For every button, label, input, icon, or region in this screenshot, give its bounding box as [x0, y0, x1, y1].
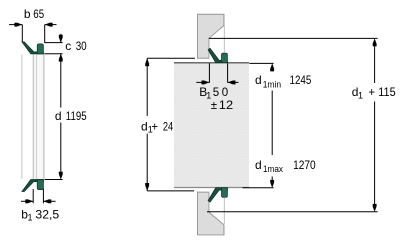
svg-text:d: d: [55, 109, 62, 123]
dimension d1min: arrow pointing up: [270, 63, 274, 69]
dimension d1+115: top arrow pointing up: [373, 38, 377, 44]
dimension d1+115: vertical line: [374, 44, 376, 83]
dimension d1+24: bottom arrow pointing down: [145, 185, 149, 191]
shaft bottom edge: [174, 187, 249, 189]
mounted V-ring bottom: body: [222, 188, 228, 198]
dimension d: bottom arrow pointing down: [59, 174, 63, 180]
dimension b1: right arrow: [43, 200, 55, 202]
dimension d1+115: top extension line: [209, 37, 378, 39]
shaft block: [174, 63, 249, 188]
svg-text:c: c: [65, 39, 71, 53]
svg-text:+: +: [151, 121, 158, 133]
dimension b: left extension line: [21, 25, 23, 42]
svg-text:0: 0: [222, 87, 228, 99]
dimension d1+24: top arrow pointing up: [145, 58, 149, 64]
dimension d1max: datum line: [243, 187, 274, 189]
mounted V-ring top: lip and base: [208, 48, 227, 62]
V-ring section lower: lip and base: [22, 180, 44, 192]
dimension c: lower datum line: [44, 53, 62, 55]
dimension d1min: datum line: [249, 62, 273, 64]
svg-text:30: 30: [76, 41, 87, 53]
svg-text:1: 1: [28, 213, 33, 223]
dimension c: upper arrow pointing down: [60, 34, 62, 43]
dimension B1: right arrow: [228, 81, 239, 83]
svg-text:5: 5: [213, 87, 219, 99]
dimension b1: left extension line: [32, 189, 34, 203]
dimension d: vertical line: [60, 63, 62, 108]
bore projection line bottom: [223, 198, 225, 224]
dimension b: line tails: [9, 24, 22, 26]
projection line at body right edge: [43, 55, 45, 180]
dimension d1+115: bottom extension line: [207, 211, 378, 213]
svg-text:±: ±: [211, 100, 217, 112]
svg-text:b: b: [24, 7, 31, 21]
projection line at body left edge: [36, 55, 38, 180]
svg-text:65: 65: [33, 9, 44, 21]
dimension b: right extension line with corner to c datum: [45, 25, 63, 43]
svg-text:12: 12: [219, 100, 233, 112]
seal section projection shading: [33, 54, 36, 179]
dimension B1: left arrow: [196, 81, 209, 83]
dimension b: left arrow: [17, 23, 23, 27]
dimension b1: left arrow: [21, 200, 33, 202]
svg-text:+: +: [368, 87, 375, 99]
housing counterface bottom column: [198, 192, 225, 235]
connecting line d1min to d1max: [271, 91, 273, 156]
svg-text:d: d: [255, 73, 262, 87]
svg-text:32,5: 32,5: [35, 210, 59, 222]
dimension d1+24: vertical line: [146, 58, 148, 116]
svg-text:1: 1: [358, 91, 363, 101]
V-ring section lower: body: [37, 180, 43, 190]
mounted V-ring top: body: [222, 53, 228, 63]
dimension d1+24: top extension line: [147, 57, 195, 59]
dimension b1: right extension line: [42, 189, 44, 204]
dimension d1+24: bottom extension line: [147, 190, 194, 192]
svg-text:d: d: [255, 158, 262, 172]
dimension B1: right extension line: [227, 63, 229, 82]
svg-text:1245: 1245: [290, 75, 312, 87]
V-ring section upper: lip and base: [22, 42, 44, 54]
svg-text:d: d: [141, 119, 148, 133]
svg-text:24: 24: [163, 121, 174, 133]
svg-text:1195: 1195: [66, 111, 87, 123]
bore projection line top: [223, 26, 225, 52]
housing counterface top column: [198, 14, 225, 58]
svg-text:115: 115: [378, 87, 395, 99]
V-ring section upper: body: [37, 44, 43, 54]
dimension d1max: arrow pointing down: [271, 177, 273, 183]
shaft top edge: [174, 62, 249, 64]
projection line at lip outer edge: [21, 55, 23, 180]
svg-text:1max: 1max: [263, 164, 283, 174]
dimension B1: left extension line: [208, 63, 210, 82]
dimension b: right arrow: [45, 23, 51, 27]
dimension c: lower arrow pointing up (shared with d): [60, 54, 62, 63]
svg-text:1min: 1min: [263, 79, 281, 89]
mounted V-ring bottom: lip and base: [208, 188, 227, 202]
projection line at lip-base joint: [32, 55, 34, 180]
dimension d: bottom datum line: [45, 179, 63, 181]
dimension d1+115: bottom arrow pointing down: [373, 206, 377, 212]
svg-text:1270: 1270: [293, 160, 316, 172]
